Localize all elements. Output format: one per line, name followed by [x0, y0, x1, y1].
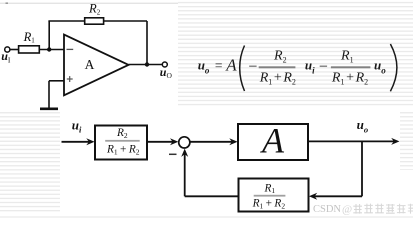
char 2: [364, 204, 373, 214]
char 6 (clipped): [408, 204, 413, 214]
svg-text:R1+R2: R1+R2: [331, 70, 368, 86]
svg-text:−: −: [319, 59, 328, 76]
wire node up to R2: [48, 21, 50, 50]
feedback wire up to summer: [184, 151, 186, 196]
arrowhead into feedback block: [309, 193, 317, 200]
char 3: [375, 204, 384, 214]
svg-text:CSDN: CSDN: [313, 204, 341, 215]
branch down: [361, 141, 363, 196]
wire R2 to output branch: [104, 20, 147, 22]
striped background bottom-left: [0, 112, 60, 213]
resistor R1: [19, 46, 40, 53]
output wire: [308, 140, 396, 142]
striped background right edge: [400, 110, 413, 170]
svg-text:=: =: [215, 58, 223, 73]
node after R1: [47, 47, 51, 51]
wire summer to A: [190, 141, 233, 143]
svg-text:A: A: [260, 121, 285, 161]
node at output: [145, 62, 149, 66]
input wire: [62, 141, 92, 143]
ground: [40, 108, 58, 111]
wire branch to feedback block: [312, 195, 362, 197]
G1 fraction R2 over R1+R2: [105, 127, 140, 156]
striped background top-right: [178, 0, 413, 108]
watermark hanzi (vector pseudo-glyphs): [353, 204, 413, 214]
svg-text:R1+R2: R1+R2: [259, 70, 296, 86]
minus at summer: [169, 153, 177, 155]
wire input to R1: [10, 49, 18, 51]
char 5: [397, 204, 406, 214]
top hairline: [0, 3, 178, 4]
op-amp U1 triangle: [64, 35, 129, 96]
right parenthesis: [390, 44, 397, 91]
arrowhead into G1: [86, 138, 94, 145]
wire G1 to summer: [147, 141, 175, 143]
block G1 R2/(R1+R2): [95, 126, 147, 160]
wire R1 to op-amp: [39, 49, 64, 51]
arrowhead into summer: [170, 138, 178, 145]
wire to ground: [48, 81, 50, 108]
resistor R2: [85, 18, 104, 24]
summing junction: [179, 137, 190, 148]
svg-text:R1+R2: R1+R2: [252, 197, 286, 210]
arrowhead output: [391, 138, 399, 145]
feedback fraction R1 over R1+R2: [252, 182, 286, 210]
arrowhead into A: [229, 138, 237, 145]
char 1: [353, 204, 362, 214]
char 4: [386, 204, 395, 213]
bottom hairline: [0, 217, 413, 218]
wire top to R2: [48, 20, 84, 22]
output wire: [129, 64, 163, 66]
feedback wire left: [185, 195, 239, 197]
wire down to output: [146, 21, 148, 65]
svg-text:−: −: [248, 59, 257, 76]
svg-text:R1+R2: R1+R2: [106, 143, 140, 156]
svg-text:@: @: [342, 204, 352, 216]
plus input wire: [49, 80, 64, 82]
minus input sign: [67, 48, 74, 50]
block A: [238, 124, 308, 160]
feedback block R1/(R1+R2): [239, 179, 309, 212]
input terminal u_I: [5, 47, 10, 52]
left parenthesis: [240, 46, 245, 92]
svg-text:A: A: [225, 56, 237, 75]
plus input sign: [67, 76, 73, 82]
arrowhead up into summer: [181, 149, 188, 157]
svg-text:A: A: [85, 57, 95, 72]
output terminal u_O: [162, 62, 167, 67]
